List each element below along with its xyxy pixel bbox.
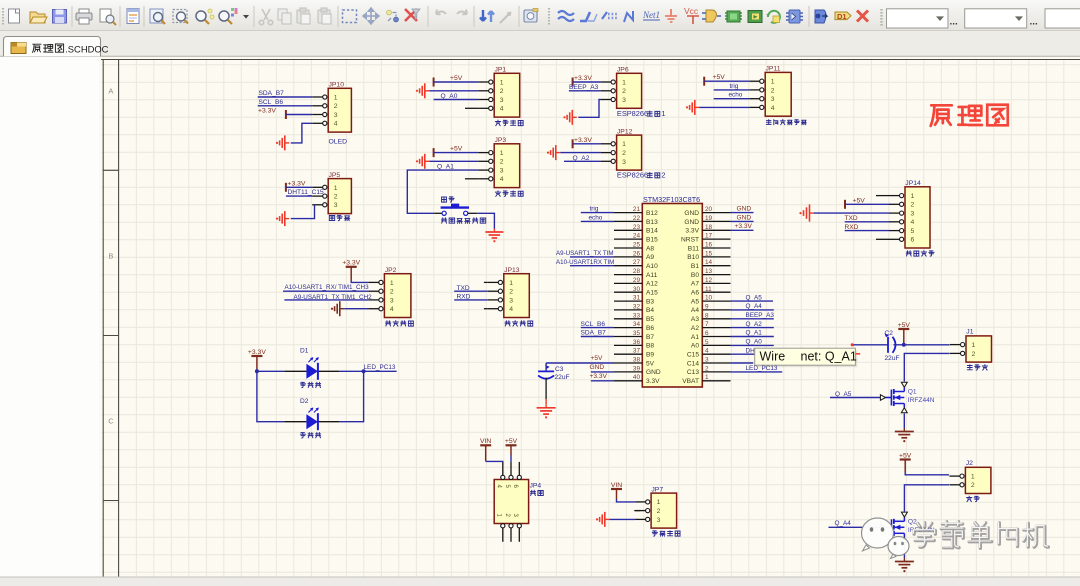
toolbar grip 3 <box>880 9 882 26</box>
svg-text:1: 1 <box>657 499 661 506</box>
comment serial spare <box>906 251 911 256</box>
wire D2 cathode up to rail <box>339 371 363 421</box>
svg-text:3: 3 <box>771 96 775 103</box>
svg-text:2: 2 <box>622 88 626 95</box>
wire +5V down to J2 pin1 <box>904 460 906 473</box>
connector JP4 (switch) body <box>494 480 528 524</box>
svg-text:net: Q_A1: net: Q_A1 <box>801 350 857 364</box>
svg-text:JP6: JP6 <box>617 67 629 74</box>
wire VIN to JP4 pin4 <box>485 445 487 461</box>
svg-text:Q_A4: Q_A4 <box>746 303 763 310</box>
toolbar icon zoom area <box>173 10 188 24</box>
svg-text:A3: A3 <box>691 316 699 323</box>
svg-text:2: 2 <box>972 351 976 358</box>
ground at JP12 pin2 <box>547 152 549 154</box>
svg-text:Q_A2: Q_A2 <box>746 321 763 328</box>
toolbar icon place part <box>725 11 742 22</box>
toolbar icon gnd port <box>665 9 677 22</box>
svg-text:2: 2 <box>500 159 504 166</box>
svg-text:2: 2 <box>661 171 665 180</box>
comment spare port 1 <box>495 120 500 126</box>
svg-text:LED_PC13: LED_PC13 <box>364 364 396 371</box>
wire ground to JP7 pin3 <box>609 518 635 520</box>
toolbar icon snapshot <box>524 9 538 23</box>
toolbar icon sheet blue <box>815 10 827 23</box>
svg-text:37: 37 <box>633 348 641 355</box>
connector J1 <box>966 336 992 362</box>
svg-text:33: 33 <box>633 312 641 319</box>
power port +3.3V above JP2 <box>346 266 357 268</box>
wire BEEP_A3 at mcu <box>731 318 774 320</box>
wire +5V to JP4 pin5 <box>510 445 512 455</box>
wire J1 pin2 to Q1 drain <box>904 353 949 381</box>
svg-text:A9: A9 <box>646 254 654 261</box>
ground at JP11 pin4 <box>686 106 688 108</box>
comment power interface <box>652 531 657 536</box>
svg-text:27: 27 <box>633 259 641 266</box>
toolbar icon place gate <box>702 10 721 22</box>
comment spare port 2 <box>495 191 500 197</box>
svg-text:Q_A5: Q_A5 <box>746 294 763 301</box>
svg-text:40: 40 <box>633 374 641 381</box>
svg-text:IRFZ44N: IRFZ44N <box>908 397 935 404</box>
watermark wechat logo <box>862 518 910 559</box>
schematic title text (red) <box>931 105 1008 126</box>
ground below C3 <box>545 404 547 408</box>
svg-text:38: 38 <box>633 357 641 364</box>
svg-text:A2: A2 <box>691 325 699 332</box>
svg-text:17: 17 <box>705 233 713 240</box>
connector JP1 <box>494 73 520 117</box>
toolbar icon place wire <box>558 11 574 21</box>
svg-text:29: 29 <box>633 277 641 284</box>
svg-text:1: 1 <box>661 109 665 118</box>
toolbar icon no erc <box>857 11 868 22</box>
svg-text:+3.3V: +3.3V <box>574 75 592 82</box>
wire mcu pin35 <box>581 336 614 338</box>
power port +3.3V at JP12 pin1 <box>572 139 574 148</box>
svg-text:12: 12 <box>705 277 713 284</box>
wire Q_A2 to JP12 pin3 <box>564 160 601 162</box>
toolbar icon print preview <box>100 9 116 25</box>
svg-text:J2: J2 <box>966 460 973 467</box>
svg-text:A10: A10 <box>646 263 658 270</box>
svg-text:B8: B8 <box>646 343 654 350</box>
connector JP14 <box>905 187 930 248</box>
wire C3 to +5V rail <box>545 363 547 371</box>
svg-text:RXD: RXD <box>845 224 859 231</box>
svg-text:A11: A11 <box>646 272 658 279</box>
transistor Q2 IRFZ44N <box>891 519 893 535</box>
svg-text:C: C <box>108 417 114 426</box>
toolbar icon bus entry <box>602 12 617 19</box>
wire to JP2 pin2 <box>283 290 368 292</box>
wire echo mcu <box>581 220 614 222</box>
svg-text:24: 24 <box>633 233 641 240</box>
wire ground to JP11 pin4 <box>699 106 749 108</box>
wire Q2 source to ground <box>903 543 905 558</box>
svg-text:C3: C3 <box>555 366 564 373</box>
wire Q_A4 to Q2 gate <box>829 526 881 528</box>
wire DHT11_C15 at mcu <box>731 353 763 355</box>
svg-text:10: 10 <box>705 295 713 302</box>
svg-text:4: 4 <box>911 219 915 226</box>
wire TXD to JP13 pin2 <box>454 290 488 292</box>
svg-text:2: 2 <box>509 289 513 296</box>
svg-text:Q_A5: Q_A5 <box>835 391 852 398</box>
svg-text:SCL_B6: SCL_B6 <box>581 321 606 328</box>
connector JP13 <box>504 274 530 318</box>
toolbar combo box 3 <box>1045 9 1080 28</box>
wire GND mcu pin39 <box>591 371 614 373</box>
svg-text:A0: A0 <box>691 343 699 350</box>
tooltip Wire net Q_A1 <box>755 348 858 367</box>
wire D1 cathode to LED_PC13 <box>339 370 396 372</box>
svg-text:OLED: OLED <box>329 139 348 146</box>
toolbar icon undo disabled <box>436 10 446 15</box>
svg-text:D1: D1 <box>837 12 847 21</box>
svg-text:+3.3V: +3.3V <box>590 373 608 380</box>
connector JP6 <box>617 73 642 108</box>
comment flash lamp 2 <box>300 433 305 438</box>
wire mcu pin19 <box>731 220 754 222</box>
toolbar combo box 1 <box>887 9 949 28</box>
toolbar icon open <box>30 12 47 23</box>
toolbar icon document <box>127 9 139 24</box>
svg-text:JP14: JP14 <box>905 180 921 187</box>
toolbar icon dropdown arrow <box>243 15 249 19</box>
svg-text:B: B <box>108 252 113 261</box>
ground at push button <box>493 229 495 233</box>
svg-text:5: 5 <box>911 228 915 235</box>
svg-text:A6: A6 <box>691 290 699 297</box>
wire mcu pin27 <box>570 265 614 267</box>
svg-text:15: 15 <box>705 250 713 257</box>
toolbar icon redo disabled <box>457 10 467 15</box>
svg-text:18: 18 <box>705 224 713 231</box>
tab document icon <box>11 43 26 54</box>
svg-text:7: 7 <box>705 321 709 328</box>
push button SW (set alarm switch) <box>434 212 442 214</box>
power port +5V at JP1 pin1 <box>433 78 435 87</box>
junction at C2 +5V J1 <box>902 343 906 347</box>
svg-text:B1: B1 <box>691 263 699 270</box>
tab text 原理图.SCHDOC <box>33 44 64 52</box>
comment flash lamp 1 <box>300 382 305 387</box>
svg-text:A: A <box>108 87 113 96</box>
svg-text:...: ... <box>950 17 959 28</box>
ground at JP2 pin4 (maroon) <box>331 308 333 310</box>
wire +5V down to junction <box>903 329 905 345</box>
svg-text:GND: GND <box>737 214 752 221</box>
svg-text:+5V: +5V <box>713 74 726 81</box>
svg-text:B10: B10 <box>687 254 699 261</box>
svg-text:TXD: TXD <box>845 215 858 222</box>
svg-text:B12: B12 <box>646 210 658 217</box>
svg-text:21: 21 <box>633 206 641 213</box>
wire Q_A0 to JP1 pin3 <box>434 99 479 101</box>
ground below Q2 (maroon) <box>903 558 905 562</box>
tab row background <box>0 31 1080 57</box>
svg-text:B0: B0 <box>691 272 699 279</box>
svg-text:1: 1 <box>334 185 338 192</box>
transistor Q1 IRFZ44N <box>890 390 892 406</box>
svg-text:A7: A7 <box>691 281 699 288</box>
svg-text:GND: GND <box>646 369 661 376</box>
comment motor <box>967 365 972 370</box>
wire stub JP3 pin4 <box>465 178 478 180</box>
svg-text:30: 30 <box>633 286 641 293</box>
pins JP4 top <box>502 462 504 475</box>
wire RXD to JP13 pin3 <box>454 299 488 301</box>
svg-text:1: 1 <box>500 80 504 87</box>
svg-text:+5V: +5V <box>450 75 463 82</box>
svg-text:22: 22 <box>633 215 641 222</box>
wire JP5 pin3 to ground <box>291 205 315 219</box>
connector JP10 <box>328 88 351 132</box>
comment set alarm switch <box>442 218 447 223</box>
comment push button label <box>442 197 447 202</box>
svg-text:Q_A1: Q_A1 <box>746 330 763 337</box>
wire Q_A5 to Q1 gate <box>830 397 880 399</box>
svg-text:B3: B3 <box>646 298 654 305</box>
svg-text:+3.3V: +3.3V <box>342 260 360 267</box>
wire mcu pin34 <box>581 327 614 329</box>
wire ground to JP2 pin4 <box>344 308 368 310</box>
wire +3.3V to JP12 pin1 <box>573 143 601 145</box>
svg-text:25: 25 <box>633 242 641 249</box>
svg-text:+5V: +5V <box>899 452 912 459</box>
svg-text:BEEP_A3: BEEP_A3 <box>746 312 775 319</box>
toolbar icon zoom document <box>150 9 165 24</box>
svg-text:3: 3 <box>705 357 709 364</box>
svg-text:35: 35 <box>633 330 641 337</box>
svg-text:9: 9 <box>705 303 709 310</box>
svg-text:Q1: Q1 <box>908 389 917 396</box>
svg-text:1: 1 <box>622 80 626 87</box>
svg-text:3.3V: 3.3V <box>646 378 660 385</box>
svg-text:+5V: +5V <box>450 146 463 153</box>
svg-text:STM32F103C8T6: STM32F103C8T6 <box>643 195 700 204</box>
comment buzzer <box>329 215 334 220</box>
power port +3.3V at JP10 pin3 <box>285 110 287 119</box>
toolbar icon print <box>76 9 92 24</box>
toolbar grip 2 <box>548 8 550 25</box>
comment debug serial 1 <box>386 321 391 326</box>
toolbar grip <box>2 8 4 25</box>
wire VIN to JP7 pin1 <box>616 489 618 499</box>
connector JP2 <box>384 274 411 318</box>
svg-text:4: 4 <box>509 306 513 313</box>
connector JP3 <box>494 144 520 188</box>
diode D1 (LED) <box>284 370 306 372</box>
wire trig to JP11 pin2 <box>714 89 750 91</box>
svg-text:13: 13 <box>705 268 713 275</box>
svg-text:SDA_B7: SDA_B7 <box>259 90 285 97</box>
svg-text:8: 8 <box>705 312 709 319</box>
svg-text:B7: B7 <box>646 334 654 341</box>
toolbar background <box>0 0 1080 31</box>
comment ultrasonic sensor <box>766 120 771 125</box>
svg-text:VIN: VIN <box>480 438 491 445</box>
ground at JP1 pin2 <box>416 90 418 92</box>
wire SCL_B6 to JP10 pin2 <box>258 105 313 107</box>
svg-text:28: 28 <box>633 268 641 275</box>
svg-text:3: 3 <box>657 517 661 524</box>
svg-text:3: 3 <box>509 297 513 304</box>
svg-text:D1: D1 <box>300 348 309 355</box>
wire stub JP1 pin4 <box>465 107 478 109</box>
toolbar icon zoom colors <box>219 8 238 24</box>
wire ground to JP14 pin3 <box>814 212 889 214</box>
svg-text:B15: B15 <box>646 236 658 243</box>
svg-text:6: 6 <box>705 330 709 337</box>
wire JP6 pin3 to ground <box>578 100 600 118</box>
toolbar icon sheet entry <box>766 11 780 23</box>
svg-text:B6: B6 <box>646 325 654 332</box>
svg-text:JP13: JP13 <box>504 267 520 274</box>
svg-text:32: 32 <box>633 303 641 310</box>
wire +5V to JP1 pin1 <box>434 81 479 83</box>
toolbar icon paste disabled <box>297 8 310 24</box>
wire +5V to JP11 pin1 <box>704 80 749 82</box>
svg-text:A15: A15 <box>646 290 658 297</box>
wire ground to JP3 pin2 <box>429 160 478 162</box>
svg-text:JP10: JP10 <box>329 82 345 89</box>
svg-text:A9-USART1_TX TIM: A9-USART1_TX TIM <box>556 250 614 257</box>
svg-text:A12: A12 <box>646 281 658 288</box>
svg-text:trig: trig <box>590 206 599 213</box>
svg-text:BEEP_A3: BEEP_A3 <box>569 84 599 91</box>
wire +3.3V mcu pin40 <box>591 380 614 382</box>
svg-text:JP7: JP7 <box>651 486 663 493</box>
svg-text:B14: B14 <box>646 228 658 235</box>
power port +3.3V above D1 <box>251 355 262 357</box>
svg-text:A1: A1 <box>691 334 699 341</box>
ground at JP14 pin3 <box>799 212 801 214</box>
svg-text:VBAT: VBAT <box>682 378 699 385</box>
wire mcu pin18 <box>731 229 754 231</box>
svg-text:1: 1 <box>771 79 775 86</box>
ground stub left of C2 (partially hidden by tooltip) <box>851 343 854 346</box>
svg-text:Vcc: Vcc <box>684 6 699 16</box>
wire left branch down to D2 <box>257 371 285 421</box>
svg-text:C14: C14 <box>687 360 699 367</box>
svg-text:.SCHDOC: .SCHDOC <box>65 43 108 54</box>
svg-text:A10-USART1_RX/ TIM1_CH3: A10-USART1_RX/ TIM1_CH3 <box>285 284 370 291</box>
svg-text:2: 2 <box>971 482 975 489</box>
toolbar icon move <box>363 8 379 24</box>
svg-text:2: 2 <box>500 88 504 95</box>
toolbar icon paste special disabled <box>318 8 331 24</box>
svg-text:22uF: 22uF <box>555 374 570 381</box>
wire J2 pin2 to Q2 drain <box>904 485 949 512</box>
svg-text:JP11: JP11 <box>766 66 781 73</box>
junction at D branch <box>362 369 366 373</box>
svg-text:JP5: JP5 <box>329 172 341 179</box>
toolbar icon select rect <box>343 10 357 23</box>
svg-text:Q2: Q2 <box>908 519 917 526</box>
svg-text:+5V: +5V <box>853 197 866 204</box>
wire DHT11_C15 to JP5 pin2 <box>286 195 312 197</box>
svg-text:GND: GND <box>684 210 699 217</box>
ground at JP10 <box>276 142 278 144</box>
diode D2 (LED) <box>284 421 306 423</box>
toolbar icon D1 tag <box>835 12 851 21</box>
ground below Q1 (maroon) <box>903 428 905 432</box>
mcu pins left side 21-40 <box>614 212 642 214</box>
status bar <box>0 577 1080 586</box>
power port +3.3V at JP6 pin1 <box>572 78 574 87</box>
svg-text:4: 4 <box>771 105 775 112</box>
svg-text:DHT11_C15: DHT11_C15 <box>288 189 324 196</box>
svg-text:+5V: +5V <box>898 322 911 329</box>
toolbar icon place bus <box>580 12 597 21</box>
svg-text:2: 2 <box>390 289 394 296</box>
svg-text:JP2: JP2 <box>385 267 397 274</box>
svg-text:+3.3V: +3.3V <box>288 180 306 187</box>
toolbar icon copy disabled <box>278 9 291 24</box>
ground at JP6 <box>563 116 565 118</box>
capacitor C3 <box>538 370 554 372</box>
wire +5V to JP14 pin2 <box>845 203 889 205</box>
svg-text:JP3: JP3 <box>495 137 507 144</box>
svg-text:JP4: JP4 <box>530 483 542 490</box>
svg-text:JP1: JP1 <box>495 67 507 74</box>
wire stub JP14 pin1 <box>876 195 889 197</box>
wire +3.3V down to D1 junction <box>256 356 258 369</box>
svg-text:4: 4 <box>500 176 504 183</box>
power port +3.3V at JP5 pin1 <box>285 183 287 192</box>
power port +5V above JP4 <box>506 444 517 446</box>
svg-text:+3.3V: +3.3V <box>248 349 266 356</box>
svg-text:ESP8266: ESP8266 <box>617 171 648 180</box>
svg-text:3: 3 <box>622 97 626 104</box>
svg-text:5: 5 <box>705 339 709 346</box>
svg-text:3: 3 <box>500 168 504 175</box>
wire stub JP14 pin6 <box>876 238 889 240</box>
svg-text:2: 2 <box>334 194 338 201</box>
wire ground to JP12 pin2 <box>560 152 600 154</box>
svg-text:22uF: 22uF <box>885 355 900 362</box>
wire push button to ground <box>477 213 494 228</box>
svg-text:1: 1 <box>971 473 975 480</box>
svg-text:VIN: VIN <box>611 482 622 489</box>
power port +5V above J2 <box>900 458 911 460</box>
power port VIN above JP4 <box>480 444 491 446</box>
svg-text:trig: trig <box>730 83 739 90</box>
connector JP5 <box>328 179 351 214</box>
wire C3 to ground <box>545 378 547 399</box>
power port +5V at JP14 pin2 <box>844 200 846 209</box>
svg-text:GND: GND <box>684 219 699 226</box>
wire ground to C2 <box>854 344 889 346</box>
toolbar icon new <box>9 9 20 23</box>
wire Q1 source to ground <box>903 414 905 429</box>
toolbar icon updown <box>480 10 494 22</box>
svg-text:2: 2 <box>771 87 775 94</box>
svg-text:SDA_B7: SDA_B7 <box>581 330 607 337</box>
svg-text:4: 4 <box>334 121 338 128</box>
toolbar icon filter off <box>405 9 420 21</box>
svg-text:A8: A8 <box>646 245 654 252</box>
svg-text:1: 1 <box>390 280 394 287</box>
svg-text:1: 1 <box>500 150 504 157</box>
wire echo to JP11 pin3 <box>714 98 750 100</box>
wire mcu pin3 <box>731 362 754 364</box>
wire stub JP13 pin1 <box>484 281 488 283</box>
svg-text:D2: D2 <box>300 398 309 405</box>
